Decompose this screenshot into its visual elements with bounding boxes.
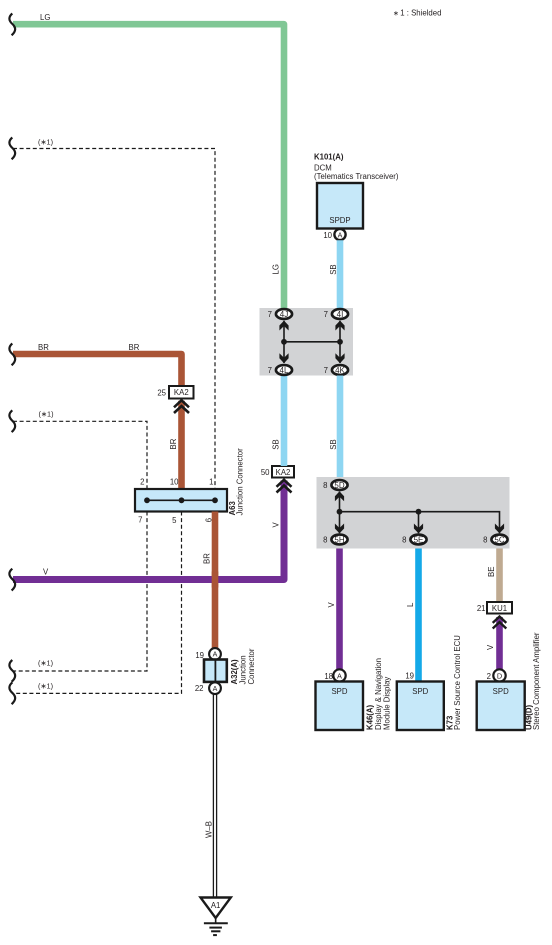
svg-text:(∗1): (∗1) xyxy=(39,409,54,418)
svg-text:10: 10 xyxy=(170,478,179,487)
svg-text:SB: SB xyxy=(329,264,338,274)
pin circle A (18) xyxy=(333,669,345,681)
wire V 5H to K46 xyxy=(336,549,343,670)
svg-text:SPD: SPD xyxy=(331,687,347,696)
svg-text:7: 7 xyxy=(324,310,328,319)
svg-text:A: A xyxy=(213,685,218,693)
shield chevron below KA2 pin 50 xyxy=(277,480,292,493)
ground bar 3 xyxy=(211,930,220,932)
wire L 5E to K73 xyxy=(415,549,422,682)
wire dashed A63 pin 5 to left (*1) #4 xyxy=(13,512,182,694)
svg-text:A: A xyxy=(213,651,218,659)
node block2 mid xyxy=(416,509,422,515)
svg-text:BR: BR xyxy=(38,343,49,352)
svg-text:25: 25 xyxy=(157,389,166,398)
junction connector A32(A) box xyxy=(204,660,227,682)
connector 4K xyxy=(332,365,348,375)
svg-text:4J: 4J xyxy=(280,310,288,319)
svg-text:8: 8 xyxy=(323,481,327,490)
wire V from left up to KA2 pin 50 xyxy=(13,481,284,580)
svg-text:V: V xyxy=(327,602,336,608)
svg-text:V: V xyxy=(486,644,495,650)
svg-text:Power Source Control ECU: Power Source Control ECU xyxy=(453,635,462,730)
svg-text:W–B: W–B xyxy=(205,821,214,838)
connector 4I xyxy=(332,309,348,319)
break squiggle (*1) #2 xyxy=(9,410,15,432)
A32 divider xyxy=(214,660,216,682)
wire SB KA2 pin 50 up to 4L xyxy=(281,376,288,467)
shield arrow up into 4I xyxy=(335,321,344,331)
connector K73 box xyxy=(397,682,444,731)
svg-text:V: V xyxy=(43,568,49,577)
break squiggle (*1) #4 xyxy=(9,682,15,704)
svg-text:V: V xyxy=(272,522,281,528)
svg-text:5E: 5E xyxy=(414,535,424,544)
svg-text:SPD: SPD xyxy=(412,687,428,696)
svg-text:D: D xyxy=(497,671,502,680)
connector K46(A) box xyxy=(316,682,364,731)
svg-text:5C: 5C xyxy=(494,535,504,544)
break squiggle (*1) #1 xyxy=(9,138,15,160)
pin circle D (2) xyxy=(493,669,505,681)
connector 4L xyxy=(276,365,292,375)
svg-text:Junction Connector: Junction Connector xyxy=(236,448,245,516)
svg-text:A: A xyxy=(338,231,343,239)
svg-text:BR: BR xyxy=(169,438,178,449)
svg-text:2: 2 xyxy=(140,478,144,487)
wire BR over V crossing xyxy=(212,572,219,588)
junction connector A63 box xyxy=(135,489,227,512)
svg-text:(∗1): (∗1) xyxy=(38,682,53,691)
break squiggle BR xyxy=(9,344,15,366)
break squiggle V xyxy=(9,569,15,591)
ground bar 1 xyxy=(204,922,228,924)
wire BR from left to KA2 xyxy=(13,354,182,387)
connector KA2 pin 25 box xyxy=(169,386,194,399)
shield arrow up into 5D xyxy=(335,491,344,501)
shield block 1 xyxy=(260,308,354,376)
svg-text:5D: 5D xyxy=(334,481,344,490)
svg-text:KA2: KA2 xyxy=(276,468,291,477)
shield chevron below KU1 xyxy=(493,617,507,629)
node A63 pin10/5 xyxy=(179,497,185,503)
wire dashed (*1) #2 from left into A63 pin 2 xyxy=(13,421,147,489)
svg-text:SPD: SPD xyxy=(493,687,509,696)
svg-text:5H: 5H xyxy=(334,535,344,544)
shield arrow down into 4L xyxy=(279,353,288,363)
wire SB 4K to 5D xyxy=(337,376,344,481)
svg-text:(Telematics Transceiver): (Telematics Transceiver) xyxy=(314,172,399,181)
connector KA2 pin 50 box xyxy=(272,466,294,478)
wire W-B A32 to ground xyxy=(213,695,216,898)
svg-text:22: 22 xyxy=(195,684,204,693)
svg-text:5: 5 xyxy=(172,516,177,525)
svg-text:Module Display: Module Display xyxy=(383,677,392,730)
svg-text:A1: A1 xyxy=(211,901,221,910)
connector 5E xyxy=(410,535,426,545)
svg-text:18: 18 xyxy=(324,672,333,681)
svg-text:K101(A): K101(A) xyxy=(314,153,344,162)
svg-text:(∗1): (∗1) xyxy=(38,137,53,146)
break squiggle LG xyxy=(9,14,15,36)
wire BE 5C to KU1 xyxy=(496,549,503,603)
svg-text:BR: BR xyxy=(129,343,140,352)
svg-text:19: 19 xyxy=(195,651,204,660)
svg-text:BE: BE xyxy=(487,567,496,577)
ground stem xyxy=(215,918,217,923)
svg-text:1: 1 xyxy=(209,478,213,487)
svg-text:LG: LG xyxy=(272,264,281,274)
svg-text:Stereo Component Amplifier: Stereo Component Amplifier xyxy=(532,632,541,730)
connector 4J xyxy=(276,309,292,319)
svg-text:7: 7 xyxy=(268,366,272,375)
pin circle A (22) xyxy=(209,682,221,694)
svg-text:8: 8 xyxy=(323,536,327,545)
shield arrow down into 4K xyxy=(335,353,344,363)
svg-text:LG: LG xyxy=(40,13,50,22)
shield arrow up into 4J xyxy=(279,321,288,331)
svg-text:SPDP: SPDP xyxy=(329,216,350,225)
shield chevron below KA2 xyxy=(174,400,189,413)
svg-text:21: 21 xyxy=(477,604,486,613)
shield wire lines block 1 xyxy=(284,321,340,363)
break squiggle (*1) #3 xyxy=(9,660,15,682)
wire V KU1 to U49 xyxy=(496,617,503,670)
svg-text:L: L xyxy=(406,602,415,607)
svg-text:50: 50 xyxy=(261,468,270,477)
svg-text:4K: 4K xyxy=(335,366,345,375)
wire BR KA2 to A63 pin 10 xyxy=(178,401,185,489)
node block2 left xyxy=(337,509,343,515)
connector KU1 pin 21 box xyxy=(487,602,512,614)
shield arrow down into 5H xyxy=(335,524,344,534)
svg-text:BR: BR xyxy=(203,553,212,564)
pin circle A (10) xyxy=(334,229,345,240)
svg-text:SB: SB xyxy=(272,439,281,449)
pin circle A (19) xyxy=(209,648,221,660)
svg-text:Display & Navigation: Display & Navigation xyxy=(374,658,383,730)
ground bar 4 xyxy=(213,934,217,936)
svg-text:7: 7 xyxy=(138,516,142,525)
shield arrow down into 5C xyxy=(495,524,504,534)
wire BR A63 pin 6 to A32 pin 19 xyxy=(212,512,219,650)
shield arrow down into 5E xyxy=(414,524,423,534)
svg-text:4L: 4L xyxy=(280,366,289,375)
connector 5D xyxy=(331,480,347,490)
shield block 2 xyxy=(317,477,510,549)
svg-text:8: 8 xyxy=(483,536,487,545)
svg-text:KU1: KU1 xyxy=(492,604,507,613)
node A63 pin1/6 xyxy=(212,497,218,503)
connector K101(A) box xyxy=(317,183,363,229)
svg-text:7: 7 xyxy=(268,310,272,319)
wire SB K101 to 4I xyxy=(337,240,344,308)
node block1 right xyxy=(337,339,343,345)
node A63 pin2/7 xyxy=(144,497,150,503)
svg-text:7: 7 xyxy=(324,366,328,375)
connector 5H xyxy=(331,535,347,545)
node block1 left xyxy=(281,339,287,345)
wire dashed (*1) #1 from left into A63 pin 1 xyxy=(13,149,215,490)
connector U49(D) box xyxy=(477,682,525,731)
wire dashed A63 pin 7 to left (*1) #3 xyxy=(13,512,147,672)
A63 internal bus xyxy=(147,499,215,501)
svg-text:(∗1): (∗1) xyxy=(38,659,53,668)
shield wire lines block 2 xyxy=(340,492,500,534)
svg-text:10: 10 xyxy=(323,231,332,240)
svg-text:19: 19 xyxy=(405,671,414,680)
svg-text:Connector: Connector xyxy=(247,648,256,684)
svg-text:SB: SB xyxy=(329,439,338,449)
wire LG from left to connector 4J xyxy=(13,24,284,308)
svg-text:8: 8 xyxy=(402,536,406,545)
connector 5C xyxy=(491,535,507,545)
ground A1 triangle xyxy=(201,898,231,919)
svg-text:A: A xyxy=(337,671,342,680)
svg-text:∗ 1 : Shielded: ∗ 1 : Shielded xyxy=(393,9,441,18)
svg-text:2: 2 xyxy=(487,672,491,681)
ground bar 2 xyxy=(209,927,222,929)
svg-text:4I: 4I xyxy=(337,310,344,319)
svg-text:KA2: KA2 xyxy=(174,388,189,397)
